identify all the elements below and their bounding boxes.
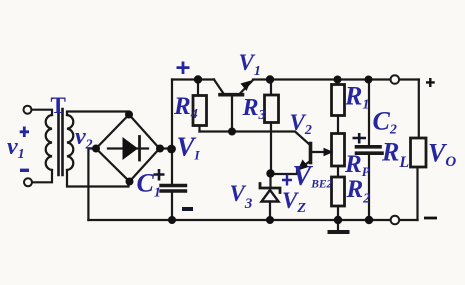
svg-text:T: T [51,93,66,118]
